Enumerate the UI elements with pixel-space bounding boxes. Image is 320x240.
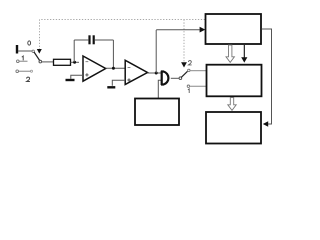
op-amp U1 plus sign bbox=[85, 73, 88, 76]
wire top horizontal to box B1 bbox=[156, 29, 199, 31]
wire capacitor to feedback right vertical bbox=[95, 39, 114, 41]
arrowhead onto switch SW2 wiper bbox=[181, 62, 187, 67]
switch SW1 contact 1 circle and stub bbox=[17, 60, 20, 63]
box B4 bottom middle bbox=[135, 99, 179, 126]
box B2 middle right bbox=[207, 65, 262, 97]
wire box B1 right feedback down to box B3 bbox=[262, 29, 272, 124]
wire op-amp U2 plus input to ground bbox=[112, 80, 125, 86]
switch SW1 wiper bbox=[34, 52, 40, 61]
op-amp U2 plus sign bbox=[127, 78, 130, 81]
switch SW1 contact 2 circle and stub bbox=[16, 70, 19, 73]
wire contact 2 to box B2 bbox=[190, 70, 206, 72]
box B3 bottom right bbox=[206, 112, 261, 144]
label 1 bbox=[22, 56, 23, 60]
hollow block arrow B2 to B3 bbox=[228, 98, 236, 111]
op-amp U2 buffer bbox=[125, 60, 147, 84]
capacitor C1 bbox=[88, 35, 90, 44]
wire resistor to node A bbox=[71, 61, 80, 63]
label 1 bbox=[188, 89, 189, 93]
switch SW1 contact 0 circle bbox=[32, 50, 34, 52]
switch SW1 input terminal bar bbox=[16, 45, 18, 54]
hollow block arrow B1 to B2 bbox=[226, 45, 234, 62]
op-amp U2 minus sign bbox=[128, 66, 131, 68]
filled arrow B1 to B2 bbox=[243, 45, 245, 59]
wire op-amp U1 output to node B bbox=[106, 67, 126, 69]
wire contact 1 to box B2 bbox=[190, 85, 206, 87]
ground G1 bbox=[66, 79, 75, 81]
switch SW1 pivot circle bbox=[39, 60, 42, 63]
arrowhead onto switch SW1 wiper bbox=[37, 49, 42, 54]
node B junction dot bbox=[112, 67, 115, 70]
wire dashed control line vertical down to switch SW2 bbox=[183, 20, 185, 63]
wire gate U3 output to switch SW2 pivot bbox=[171, 77, 179, 79]
wire op-amp U2 output to gate U3 bbox=[148, 72, 162, 74]
wire dashed control line vertical down to switch SW1 bbox=[39, 20, 41, 50]
wire gate U3 lower input from box B4 bbox=[158, 80, 161, 98]
label 0 bbox=[28, 41, 31, 45]
wire feedback top left to capacitor C1 bbox=[74, 39, 88, 41]
arrowhead into box B3 right bbox=[263, 121, 268, 127]
wire feedback left vertical bbox=[73, 40, 75, 62]
switch SW2 pivot circle bbox=[179, 77, 182, 80]
switch SW2 contact 1 circle bbox=[187, 85, 189, 87]
resistor R1 bbox=[54, 59, 71, 65]
op-amp U1 bbox=[83, 56, 106, 81]
box B1 top right bbox=[206, 14, 262, 44]
op-amp U1 minus sign bbox=[86, 61, 89, 63]
arrowhead into box B1 bbox=[200, 27, 206, 33]
node C junction dot bbox=[155, 72, 158, 75]
wire pivot to resistor R1 bbox=[42, 61, 54, 63]
wire dashed control line horizontal from box B1 to corner above switch SW1 bbox=[40, 19, 206, 21]
node A junction dot bbox=[73, 61, 76, 64]
wire feedback right vertical down to node B bbox=[112, 40, 114, 68]
wire from terminal to contact 0 bbox=[18, 50, 32, 52]
switch SW2 contact 2 circle bbox=[188, 69, 190, 71]
ground G2 bbox=[107, 86, 115, 88]
AND gate U3 bbox=[161, 71, 168, 85]
label 2 bbox=[189, 61, 192, 65]
wire op-amp U1 plus input bbox=[71, 75, 83, 79]
wire riser node C up bbox=[155, 30, 157, 73]
switch SW2 wiper bbox=[181, 71, 187, 77]
label 2 bbox=[27, 77, 30, 81]
